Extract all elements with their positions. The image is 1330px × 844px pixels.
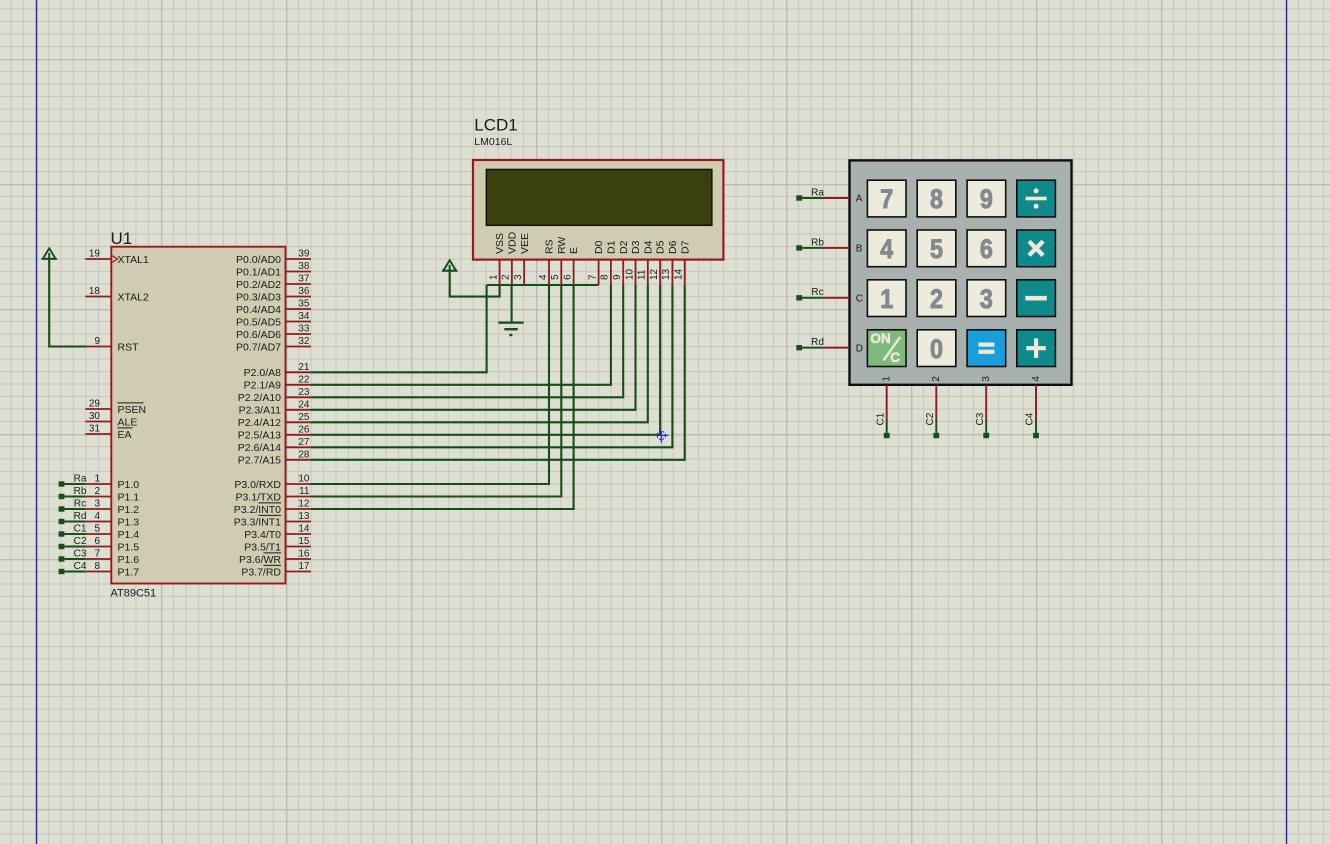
svg-text:C: C [856, 293, 863, 304]
U1 pin P1.0 pin 1 [85, 474, 139, 491]
svg-text:9: 9 [94, 336, 100, 347]
terminal Rb at U1 P1.1 [59, 486, 87, 499]
U1 pin P1.2 pin 3 [85, 499, 139, 516]
terminal C2 at U1 P1.5 [59, 536, 87, 549]
svg-text:39: 39 [298, 249, 310, 260]
svg-text:1: 1 [94, 474, 100, 485]
svg-text:14: 14 [674, 268, 685, 280]
svg-text:C2: C2 [74, 536, 87, 547]
U1 pin P3.4/T0 pin 14 [244, 524, 311, 541]
svg-text:EA: EA [118, 429, 132, 441]
svg-text:A: A [856, 194, 863, 205]
svg-text:P1.7: P1.7 [118, 566, 140, 578]
svg-text:Rb: Rb [74, 486, 87, 497]
U1 pin P2.6/A14 pin 27 [238, 437, 311, 454]
keypad button minus [1017, 280, 1056, 317]
svg-text:P3.1/TXD: P3.1/TXD [235, 491, 281, 503]
wire LCD supply bus [487, 284, 599, 286]
wire U1 P2.0 to LCD D0 [311, 285, 487, 372]
terminal Rc at keypad row C [796, 287, 823, 300]
svg-text:27: 27 [298, 437, 310, 448]
svg-text:7: 7 [880, 184, 893, 214]
LCD1 pin 2 VDD [501, 231, 519, 285]
LCD1 pin 5 RW [550, 237, 568, 285]
svg-text:D7: D7 [679, 240, 691, 254]
svg-text:P1.2: P1.2 [118, 504, 140, 516]
svg-text:C1: C1 [875, 412, 886, 425]
U1 pin P3.3/INT1 pin 13 [234, 511, 311, 528]
svg-text:7: 7 [94, 549, 100, 560]
svg-text:21: 21 [298, 362, 310, 373]
U1 pin P1.1 pin 2 [85, 486, 139, 503]
LCD1 pin 10 D3 [624, 240, 642, 285]
keypad button 3 [967, 280, 1006, 317]
svg-text:0: 0 [930, 334, 943, 364]
svg-text:10: 10 [298, 474, 310, 485]
svg-text:2: 2 [930, 284, 943, 314]
keypad column label 1 [882, 376, 893, 382]
svg-text:P2.5/A13: P2.5/A13 [238, 430, 281, 442]
terminal C1 at U1 P1.4 [59, 523, 87, 536]
wire U1 P2.7 to LCD D7 [311, 285, 685, 460]
svg-text:5: 5 [930, 234, 943, 264]
LCD1 pin 6 E [562, 247, 580, 285]
svg-text:RW: RW [556, 237, 568, 254]
svg-text:C: C [890, 350, 900, 365]
U1 pin XTAL2 pin 18 [85, 286, 149, 303]
U1 pin P3.6/WR pin 16 [239, 549, 311, 566]
wire keypad row C [822, 297, 849, 299]
svg-text:D1: D1 [606, 240, 618, 254]
U1 pin ALE pin 30 [85, 411, 137, 428]
svg-text:P2.0/A8: P2.0/A8 [244, 367, 282, 379]
U1 pin EA pin 31 [85, 424, 132, 441]
svg-text:AT89C51: AT89C51 [111, 588, 157, 600]
LCD1 pin 8 D1 [600, 240, 618, 285]
svg-text:P0.1/AD1: P0.1/AD1 [236, 266, 281, 278]
svg-text:33: 33 [298, 324, 310, 335]
svg-text:D6: D6 [667, 240, 679, 254]
svg-text:Rc: Rc [74, 498, 86, 509]
svg-text:17: 17 [298, 561, 310, 572]
LCD1 screen [486, 170, 711, 226]
wire keypad row D [822, 347, 849, 349]
LCD1 pin 9 D2 [612, 240, 630, 285]
svg-text:P3.4/T0: P3.4/T0 [244, 529, 281, 541]
svg-text:VDD: VDD [507, 231, 519, 254]
U1 pin P0.0/AD0 pin 39 [236, 249, 311, 266]
U1 pin PSEN pin 29 [85, 399, 146, 416]
svg-text:P2.7/A15: P2.7/A15 [238, 455, 281, 467]
terminal C4 at keypad column 4 [1025, 412, 1039, 438]
svg-text:C2: C2 [925, 412, 936, 425]
wire keypad row B [822, 247, 849, 249]
terminal Rd at keypad row D [796, 337, 824, 350]
power flag VCC at LCD [442, 260, 457, 271]
svg-text:Ra: Ra [74, 473, 87, 484]
U1 pin P2.3/A11 pin 24 [239, 400, 311, 417]
svg-text:3: 3 [980, 284, 993, 314]
LCD1 pin 13 D6 [661, 240, 679, 285]
terminal Ra at keypad row A [796, 187, 824, 200]
svg-text:38: 38 [298, 261, 310, 272]
lcd LCD1 body [473, 160, 723, 260]
U1 pin P0.2/AD2 pin 37 [236, 274, 311, 291]
wire keypad column 2 [935, 385, 937, 419]
svg-text:P3.0/RXD: P3.0/RXD [234, 479, 281, 491]
svg-text:18: 18 [89, 286, 101, 297]
svg-text:Rc: Rc [811, 287, 823, 298]
label LM016L [474, 136, 512, 148]
svg-text:D5: D5 [655, 240, 667, 254]
svg-text:ON: ON [870, 331, 890, 346]
LCD1 pin 4 RS [538, 239, 556, 285]
svg-text:RS: RS [544, 239, 556, 254]
svg-text:C4: C4 [1025, 412, 1036, 425]
svg-text:11: 11 [637, 269, 648, 280]
svg-text:C1: C1 [74, 523, 87, 534]
svg-text:32: 32 [298, 336, 310, 347]
svg-text:P2.2/A10: P2.2/A10 [238, 392, 281, 404]
svg-text:36: 36 [298, 286, 310, 297]
svg-text:P0.6/AD6: P0.6/AD6 [236, 329, 281, 341]
svg-text:P3.3/INT1: P3.3/INT1 [234, 516, 281, 528]
svg-text:8: 8 [600, 274, 611, 280]
svg-text:4: 4 [1031, 376, 1042, 382]
svg-text:C3: C3 [975, 412, 986, 425]
U1 pin P2.7/A15 pin 28 [238, 450, 311, 467]
svg-text:C3: C3 [74, 548, 87, 559]
keypad row label D [856, 343, 863, 354]
power flag VCC at U1 RST [42, 248, 57, 258]
terminal C3 at keypad column 3 [975, 412, 989, 438]
keypad button equals [967, 330, 1006, 367]
svg-text:13: 13 [298, 511, 310, 522]
LCD1 pin 7 D0 [587, 240, 605, 285]
svg-text:LCD1: LCD1 [474, 116, 517, 135]
svg-text:VSS: VSS [494, 233, 506, 254]
svg-text:5: 5 [550, 274, 561, 280]
svg-text:D0: D0 [593, 240, 605, 254]
svg-text:P1.4: P1.4 [118, 529, 140, 541]
svg-text:PSEN: PSEN [118, 404, 147, 416]
wire U1 P3.2 to LCD E [311, 285, 574, 509]
svg-text:P3.5/T1: P3.5/T1 [244, 541, 281, 553]
svg-text:4: 4 [538, 274, 549, 280]
U1 pin P1.3 pin 4 [85, 511, 139, 528]
keypad row label B [856, 244, 863, 255]
wire VCC to LCD VDD bus [450, 271, 500, 297]
U1 pin XTAL1 pin 19 [85, 249, 149, 266]
svg-text:E: E [568, 247, 580, 254]
svg-text:D: D [856, 343, 863, 354]
svg-text:6: 6 [562, 274, 573, 280]
svg-text:XTAL1: XTAL1 [118, 254, 149, 266]
sheet border left [36, 0, 38, 844]
svg-text:P2.1/A9: P2.1/A9 [244, 380, 282, 392]
svg-text:P0.0/AD0: P0.0/AD0 [236, 254, 281, 266]
svg-text:D3: D3 [630, 240, 642, 254]
LCD1 pin 11 D4 [637, 240, 655, 285]
svg-text:P3.2/INT0: P3.2/INT0 [234, 504, 281, 516]
svg-text:D2: D2 [618, 240, 630, 254]
svg-text:P3.7/RD: P3.7/RD [241, 566, 281, 578]
svg-text:22: 22 [298, 375, 310, 386]
terminal C3 at U1 P1.6 [59, 548, 87, 561]
svg-text:16: 16 [298, 549, 310, 560]
wire U1 P2.5 to LCD D5 [311, 285, 660, 435]
keypad button 7 [867, 180, 906, 217]
svg-text:P1.6: P1.6 [118, 554, 140, 566]
svg-text:P3.6/WR: P3.6/WR [239, 554, 281, 566]
svg-text:15: 15 [298, 536, 310, 547]
svg-text:B: B [856, 244, 863, 255]
keypad button 6 [967, 230, 1006, 267]
svg-text:6: 6 [980, 234, 993, 264]
terminal Rc at U1 P1.2 [59, 498, 87, 511]
svg-text:D4: D4 [642, 240, 654, 254]
svg-text:LM016L: LM016L [474, 136, 512, 148]
svg-text:4: 4 [94, 511, 100, 522]
svg-text:25: 25 [298, 412, 310, 423]
svg-text:29: 29 [89, 399, 101, 410]
svg-text:9: 9 [612, 274, 623, 280]
svg-text:P0.7/AD7: P0.7/AD7 [236, 341, 281, 353]
terminal C4 at U1 P1.7 [59, 561, 87, 574]
svg-text:Rb: Rb [811, 237, 824, 248]
svg-text:37: 37 [298, 274, 310, 285]
svg-text:9: 9 [980, 184, 993, 214]
LCD1 pin 14 D7 [674, 240, 692, 285]
svg-text:10: 10 [624, 268, 635, 280]
svg-text:U1: U1 [111, 229, 133, 248]
U1 pin P2.5/A13 pin 26 [238, 425, 311, 442]
svg-text:8: 8 [930, 184, 943, 214]
svg-text:P1.3: P1.3 [118, 516, 140, 528]
U1 pin RST pin 9 [85, 336, 139, 353]
wire VCC to RST [49, 259, 86, 347]
wire keypad column 3 [985, 385, 987, 419]
U1 pin P0.1/AD1 pin 38 [236, 261, 311, 278]
svg-text:12: 12 [298, 499, 310, 510]
svg-text:2: 2 [501, 274, 512, 280]
svg-text:Rd: Rd [811, 337, 824, 348]
svg-text:8: 8 [94, 561, 100, 572]
svg-text:23: 23 [298, 387, 310, 398]
LCD1 pin 3 VEE [513, 233, 531, 285]
svg-text:P0.5/AD5: P0.5/AD5 [236, 316, 281, 328]
svg-text:C4: C4 [74, 561, 87, 572]
ground at LCD VEE [498, 285, 523, 335]
svg-text:4: 4 [880, 234, 893, 264]
keypad button ON/C [867, 330, 906, 367]
svg-text:P2.4/A12: P2.4/A12 [238, 417, 281, 429]
LCD1 pin 12 D5 [649, 240, 667, 285]
svg-text:1: 1 [488, 274, 499, 280]
terminal C2 at keypad column 2 [925, 412, 939, 438]
wire U1 P2.1 to LCD D1 [311, 285, 611, 385]
U1 pin P2.2/A10 pin 23 [238, 387, 311, 404]
svg-text:2: 2 [94, 486, 100, 497]
svg-text:12: 12 [649, 268, 660, 280]
svg-text:24: 24 [298, 400, 310, 411]
svg-text:1: 1 [882, 376, 893, 382]
keypad button 2 [917, 280, 956, 317]
svg-text:35: 35 [298, 299, 310, 310]
wire U1 P2.4 to LCD D4 [311, 285, 648, 422]
svg-text:P2.6/A14: P2.6/A14 [238, 442, 281, 454]
svg-text:30: 30 [89, 411, 101, 422]
svg-text:2: 2 [931, 376, 942, 382]
wire U1 P2.3 to LCD D3 [311, 285, 636, 410]
U1 pin P2.0/A8 pin 21 [244, 362, 311, 379]
keypad button 8 [917, 180, 956, 217]
keypad button 4 [867, 230, 906, 267]
keypad button 1 [867, 280, 906, 317]
U1 pin P0.3/AD3 pin 36 [236, 286, 311, 303]
svg-text:26: 26 [298, 425, 310, 436]
svg-text:Ra: Ra [811, 187, 824, 198]
terminal Ra at U1 P1.0 [59, 473, 87, 486]
U1 pin P2.4/A12 pin 25 [238, 412, 311, 429]
wire keypad column 4 [1035, 385, 1037, 419]
terminal Rb at keypad row B [796, 237, 824, 250]
U1 pin P3.1/TXD pin 11 [235, 486, 311, 503]
keypad body [850, 160, 1072, 384]
wire keypad row A [822, 197, 849, 199]
svg-text:6: 6 [94, 536, 100, 547]
svg-text:P1.5: P1.5 [118, 541, 140, 553]
label LCD1 [474, 116, 517, 135]
keypad button divide [1017, 180, 1056, 217]
svg-text:XTAL2: XTAL2 [118, 291, 149, 303]
wire keypad column 1 [886, 385, 888, 419]
U1 pin P2.1/A9 pin 22 [244, 375, 311, 392]
svg-text:31: 31 [89, 424, 101, 435]
label AT89C51 [111, 588, 157, 600]
svg-text:13: 13 [661, 268, 672, 280]
svg-text:RST: RST [118, 341, 140, 353]
U1 pin P1.4 pin 5 [85, 524, 139, 541]
U1 pin P0.4/AD4 pin 35 [236, 299, 311, 316]
U1 pin P3.7/RD pin 17 [241, 561, 311, 578]
wire U1 P2.2 to LCD D2 [311, 285, 623, 397]
keypad column label 2 [931, 376, 942, 382]
svg-text:P0.4/AD4: P0.4/AD4 [236, 304, 281, 316]
svg-text:P0.2/AD2: P0.2/AD2 [236, 279, 281, 291]
U1 pin P3.2/INT0 pin 12 [234, 499, 311, 516]
U1 pin P0.5/AD5 pin 34 [236, 311, 311, 328]
terminal C1 at keypad column 1 [875, 412, 889, 438]
LCD1 pin 1 VSS [488, 233, 506, 285]
keypad button multiply [1017, 230, 1056, 267]
sheet border right [1286, 0, 1288, 844]
svg-text:Rd: Rd [74, 511, 87, 522]
svg-text:P2.3/A11: P2.3/A11 [239, 405, 282, 417]
svg-text:7: 7 [587, 274, 598, 280]
svg-text:14: 14 [298, 524, 310, 535]
U1 pin P3.0/RXD pin 10 [234, 474, 311, 491]
wire U1 P3.0 to LCD RS [311, 285, 549, 484]
svg-text:5: 5 [94, 524, 100, 535]
cursor crosshair [657, 431, 668, 443]
svg-text:P1.0: P1.0 [118, 479, 140, 491]
svg-text:P1.1: P1.1 [118, 491, 140, 503]
U1 pin P1.5 pin 6 [85, 536, 139, 553]
svg-text:3: 3 [513, 274, 524, 280]
label U1 [111, 229, 133, 248]
svg-text:34: 34 [298, 311, 310, 322]
keypad button 5 [917, 230, 956, 267]
keypad button 0 [917, 330, 956, 367]
wire U1 P3.1 to LCD RW [311, 285, 561, 497]
svg-text:19: 19 [89, 249, 101, 260]
svg-text:28: 28 [298, 450, 310, 461]
svg-text:1: 1 [880, 284, 893, 314]
keypad row label C [856, 293, 863, 304]
microcontroller U1 body [111, 247, 285, 584]
keypad button 9 [967, 180, 1006, 217]
keypad row label A [856, 194, 863, 205]
keypad column label 4 [1031, 376, 1042, 382]
U1 pin P1.7 pin 8 [85, 561, 139, 578]
U1 pin P1.6 pin 7 [85, 549, 139, 566]
terminal Rd at U1 P1.3 [59, 511, 87, 524]
U1 pin P0.6/AD6 pin 33 [236, 324, 311, 341]
wire U1 P2.6 to LCD D6 [311, 285, 672, 447]
svg-text:ALE: ALE [118, 416, 138, 428]
svg-text:3: 3 [94, 499, 100, 510]
U1 pin P0.7/AD7 pin 32 [236, 336, 311, 353]
svg-text:VEE: VEE [519, 233, 531, 254]
keypad button plus [1017, 330, 1056, 367]
svg-text:P0.3/AD3: P0.3/AD3 [236, 291, 281, 303]
svg-text:3: 3 [981, 376, 992, 382]
svg-text:11: 11 [299, 486, 310, 497]
U1 pin P3.5/T1 pin 15 [244, 536, 311, 553]
keypad column label 3 [981, 376, 992, 382]
